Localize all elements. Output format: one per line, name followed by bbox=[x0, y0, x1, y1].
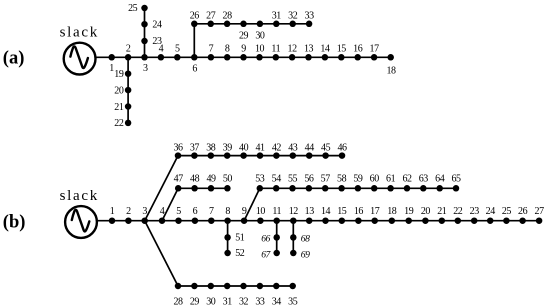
node 12 (a) bbox=[288, 43, 298, 60]
node 11 (b) bbox=[272, 206, 281, 224]
wire diagonal (b) bus3 down to bus28 bbox=[145, 221, 178, 286]
svg-text:64: 64 bbox=[435, 174, 445, 185]
svg-text:22: 22 bbox=[453, 206, 463, 217]
svg-text:12: 12 bbox=[289, 206, 299, 217]
svg-text:39: 39 bbox=[223, 142, 233, 153]
wire branch (a) bus3 up to bus 25 bbox=[144, 8, 146, 57]
svg-text:slack: slack bbox=[60, 25, 99, 41]
svg-text:21: 21 bbox=[114, 102, 124, 113]
node 8 (a) bbox=[224, 43, 231, 60]
node 27 (b) bbox=[535, 206, 545, 224]
node 63 (b) bbox=[419, 174, 429, 192]
svg-text:35: 35 bbox=[288, 296, 298, 306]
svg-text:12: 12 bbox=[288, 43, 298, 54]
node 59 (b) bbox=[353, 174, 363, 192]
node 40 (b) bbox=[239, 142, 249, 158]
svg-text:65: 65 bbox=[451, 174, 461, 185]
wire branch (b) bus12 down to bus69 bbox=[292, 221, 294, 253]
svg-text:28: 28 bbox=[223, 11, 233, 22]
node 7 (b) bbox=[208, 206, 215, 224]
node 16 (b) bbox=[354, 206, 364, 224]
node 32 (a) bbox=[288, 11, 298, 27]
node 49 (b) bbox=[206, 174, 216, 192]
svg-text:14: 14 bbox=[321, 206, 331, 217]
node 27 (a) bbox=[206, 11, 216, 27]
node 68 (b) bbox=[290, 234, 310, 245]
svg-text:30: 30 bbox=[206, 296, 216, 306]
node 16 (a) bbox=[353, 43, 363, 60]
node 50 (b) bbox=[223, 174, 233, 192]
svg-text:27: 27 bbox=[535, 206, 545, 217]
svg-text:5: 5 bbox=[175, 43, 180, 54]
svg-text:51: 51 bbox=[235, 233, 245, 244]
svg-text:26: 26 bbox=[518, 206, 528, 217]
wire diagonal (b) bus3 up to bus36 bbox=[145, 156, 178, 221]
svg-text:11: 11 bbox=[272, 206, 281, 217]
svg-text:25: 25 bbox=[502, 206, 512, 217]
svg-text:1: 1 bbox=[110, 206, 115, 217]
node 20 (a) bbox=[114, 85, 131, 96]
node 35 (b) bbox=[288, 283, 298, 306]
slack source generator (a) bbox=[64, 43, 96, 75]
svg-text:66: 66 bbox=[261, 233, 270, 244]
node 6 (a) bbox=[191, 54, 198, 74]
svg-text:16: 16 bbox=[353, 43, 363, 54]
node 26 (a) bbox=[190, 11, 200, 27]
node 15 (b) bbox=[337, 206, 347, 224]
wire branch (b) buses 28-35 bbox=[178, 285, 293, 287]
node 28 (b) bbox=[173, 283, 183, 306]
node 29 (b) bbox=[190, 283, 200, 306]
svg-text:54: 54 bbox=[272, 174, 282, 185]
node 6 (b) bbox=[192, 206, 199, 224]
node 13 (b) bbox=[305, 206, 315, 224]
svg-text:2: 2 bbox=[126, 206, 131, 217]
svg-text:63: 63 bbox=[419, 174, 429, 185]
svg-text:slack: slack bbox=[60, 188, 99, 204]
svg-text:34: 34 bbox=[272, 296, 282, 306]
wire branch (b) buses 53-65 bbox=[260, 187, 456, 189]
node 62 (b) bbox=[402, 174, 412, 192]
node 10 (b) bbox=[256, 206, 266, 224]
node 4 (a) bbox=[158, 43, 165, 60]
svg-text:61: 61 bbox=[386, 174, 396, 185]
svg-text:19: 19 bbox=[114, 69, 124, 80]
svg-text:2: 2 bbox=[126, 43, 131, 54]
svg-text:36: 36 bbox=[173, 142, 183, 153]
svg-text:10: 10 bbox=[256, 206, 266, 217]
svg-text:7: 7 bbox=[209, 43, 214, 54]
svg-text:40: 40 bbox=[239, 142, 249, 153]
wire main feeder (a) buses 1-18 bbox=[96, 56, 391, 58]
svg-text:49: 49 bbox=[206, 174, 216, 185]
svg-text:3: 3 bbox=[143, 63, 148, 74]
svg-text:62: 62 bbox=[402, 174, 412, 185]
svg-text:31: 31 bbox=[272, 11, 282, 22]
node 44 (b) bbox=[305, 142, 315, 158]
svg-text:53: 53 bbox=[255, 174, 265, 185]
node 25 (a) bbox=[128, 3, 148, 14]
node 26 (b) bbox=[518, 206, 528, 224]
svg-text:52: 52 bbox=[235, 248, 245, 259]
node 30 (a) bbox=[255, 21, 265, 42]
node 4 (b) bbox=[159, 206, 166, 224]
svg-text:32: 32 bbox=[288, 11, 298, 22]
svg-text:18: 18 bbox=[386, 65, 396, 76]
svg-text:28: 28 bbox=[173, 296, 183, 306]
svg-text:33: 33 bbox=[255, 296, 265, 306]
svg-text:17: 17 bbox=[370, 43, 380, 54]
svg-text:13: 13 bbox=[305, 206, 315, 217]
wire branch (b) bus11 down to bus67 bbox=[276, 221, 278, 253]
svg-text:32: 32 bbox=[239, 296, 249, 306]
node 30 (b) bbox=[206, 283, 216, 306]
svg-text:13: 13 bbox=[304, 43, 314, 54]
node 1 (a) bbox=[108, 54, 115, 74]
node 11 (a) bbox=[271, 43, 280, 60]
node 55 (b) bbox=[288, 174, 298, 192]
node 46 (b) bbox=[337, 142, 347, 158]
node 31 (a) bbox=[272, 11, 282, 27]
svg-text:31: 31 bbox=[223, 296, 233, 306]
svg-text:4: 4 bbox=[160, 206, 165, 217]
node 42 (b) bbox=[272, 142, 282, 158]
node 17 (a) bbox=[370, 43, 380, 60]
svg-text:21: 21 bbox=[437, 206, 447, 217]
wire branch (b) bus8 down to bus52 bbox=[227, 221, 229, 253]
node 2 (b) bbox=[125, 206, 132, 224]
svg-text:8: 8 bbox=[225, 43, 230, 54]
svg-text:29: 29 bbox=[190, 296, 200, 306]
svg-text:58: 58 bbox=[337, 174, 347, 185]
svg-text:20: 20 bbox=[421, 206, 431, 217]
node 28 (a) bbox=[223, 11, 233, 27]
svg-text:50: 50 bbox=[223, 174, 233, 185]
node 31 (b) bbox=[223, 283, 233, 306]
svg-text:38: 38 bbox=[206, 142, 216, 153]
slack source generator (b) bbox=[65, 206, 97, 238]
node 36 (b) bbox=[173, 142, 183, 158]
node 2 (a) bbox=[125, 43, 132, 60]
wire main feeder (b) buses 1-27 bbox=[97, 220, 539, 222]
svg-text:59: 59 bbox=[353, 174, 363, 185]
svg-text:16: 16 bbox=[354, 206, 364, 217]
svg-text:5: 5 bbox=[176, 206, 181, 217]
svg-text:27: 27 bbox=[206, 11, 216, 22]
wire diagonal (b) bus4 up to bus47 bbox=[162, 188, 178, 220]
node 14 (b) bbox=[321, 206, 331, 224]
svg-text:33: 33 bbox=[305, 11, 315, 22]
node 19 (b) bbox=[404, 206, 414, 224]
svg-text:43: 43 bbox=[288, 142, 298, 153]
wire branch (b) buses 47-50 bbox=[178, 187, 227, 189]
node 48 (b) bbox=[190, 174, 200, 192]
node 18 (b) bbox=[387, 206, 397, 224]
svg-text:67: 67 bbox=[261, 249, 271, 260]
svg-text:24: 24 bbox=[152, 19, 162, 30]
node 33 (b) bbox=[255, 283, 265, 306]
svg-text:60: 60 bbox=[370, 174, 380, 185]
wire branch (a) buses 26-33 bbox=[194, 23, 309, 25]
svg-text:9: 9 bbox=[241, 43, 246, 54]
node 65 (b) bbox=[451, 174, 461, 192]
node 5 (b) bbox=[175, 206, 182, 224]
node 7 (a) bbox=[208, 43, 215, 60]
svg-text:22: 22 bbox=[114, 118, 124, 129]
node 22 (a) bbox=[114, 118, 131, 129]
svg-text:23: 23 bbox=[152, 36, 162, 47]
node 13 (a) bbox=[304, 43, 314, 60]
svg-text:23: 23 bbox=[470, 206, 480, 217]
node 54 (b) bbox=[272, 174, 282, 192]
node 53 (b) bbox=[255, 174, 265, 192]
svg-text:57: 57 bbox=[321, 174, 331, 185]
node 23 (b) bbox=[470, 206, 480, 224]
svg-text:42: 42 bbox=[272, 142, 282, 153]
node 38 (b) bbox=[206, 142, 216, 158]
svg-text:55: 55 bbox=[288, 174, 298, 185]
node 69 (b) bbox=[290, 250, 310, 261]
node 47 (b) bbox=[174, 174, 184, 192]
node 22 (b) bbox=[453, 206, 463, 224]
svg-text:9: 9 bbox=[242, 206, 247, 217]
svg-text:(a): (a) bbox=[3, 48, 25, 68]
node 56 (b) bbox=[304, 174, 314, 192]
node 15 (a) bbox=[337, 43, 347, 60]
node 21 (a) bbox=[114, 102, 131, 113]
svg-text:25: 25 bbox=[128, 3, 138, 14]
svg-text:14: 14 bbox=[320, 43, 330, 54]
node 10 (a) bbox=[255, 43, 265, 60]
node 33 (a) bbox=[305, 11, 315, 27]
svg-text:48: 48 bbox=[190, 174, 200, 185]
node 18 (a) bbox=[386, 54, 396, 76]
node 8 (b) bbox=[224, 206, 231, 224]
node 39 (b) bbox=[223, 142, 233, 158]
svg-text:(b): (b) bbox=[3, 213, 26, 233]
node 66 (b) bbox=[261, 233, 280, 244]
svg-text:6: 6 bbox=[193, 206, 198, 217]
svg-text:6: 6 bbox=[192, 63, 197, 74]
node 20 (b) bbox=[421, 206, 431, 224]
node 9 (a) bbox=[240, 43, 247, 60]
svg-text:29: 29 bbox=[239, 30, 249, 41]
svg-text:26: 26 bbox=[190, 11, 200, 22]
wire diagonal (b) bus9 up to bus53 bbox=[244, 188, 260, 220]
node 37 (b) bbox=[190, 142, 200, 158]
svg-text:20: 20 bbox=[114, 85, 124, 96]
node 19 (a) bbox=[114, 69, 131, 80]
node 45 (b) bbox=[321, 142, 331, 158]
svg-text:15: 15 bbox=[337, 206, 347, 217]
node 3 (a) bbox=[141, 54, 148, 74]
svg-text:69: 69 bbox=[301, 250, 310, 261]
node 12 (b) bbox=[289, 206, 299, 224]
svg-text:56: 56 bbox=[304, 174, 314, 185]
svg-text:10: 10 bbox=[255, 43, 265, 54]
svg-text:7: 7 bbox=[209, 206, 214, 217]
node 1 (b) bbox=[109, 206, 116, 224]
svg-text:44: 44 bbox=[305, 142, 315, 153]
node 3 (b) bbox=[141, 206, 148, 224]
node 64 (b) bbox=[435, 174, 445, 192]
svg-text:19: 19 bbox=[404, 206, 414, 217]
node 23 (a) bbox=[141, 36, 162, 47]
node 9 (b) bbox=[241, 206, 248, 224]
node 29 (a) bbox=[239, 21, 249, 42]
wire branch (a) bus2 down to bus 22 bbox=[127, 57, 129, 123]
svg-text:47: 47 bbox=[174, 174, 184, 185]
node 67 (b) bbox=[261, 249, 280, 260]
svg-text:45: 45 bbox=[321, 142, 331, 153]
node 57 (b) bbox=[321, 174, 331, 192]
node 25 (b) bbox=[502, 206, 512, 224]
svg-text:30: 30 bbox=[255, 30, 265, 41]
svg-text:3: 3 bbox=[142, 206, 147, 217]
node 43 (b) bbox=[288, 142, 298, 158]
svg-text:15: 15 bbox=[337, 43, 347, 54]
node 21 (b) bbox=[437, 206, 447, 224]
svg-text:11: 11 bbox=[271, 43, 280, 54]
node 41 (b) bbox=[255, 142, 265, 158]
node 5 (a) bbox=[174, 43, 181, 60]
svg-text:46: 46 bbox=[337, 142, 347, 153]
node 61 (b) bbox=[386, 174, 396, 192]
wire branch (b) buses 36-46 bbox=[178, 155, 342, 157]
svg-text:18: 18 bbox=[387, 206, 397, 217]
node 17 (b) bbox=[370, 206, 380, 224]
node 58 (b) bbox=[337, 174, 347, 192]
node 52 (b) bbox=[224, 248, 244, 259]
svg-text:17: 17 bbox=[370, 206, 380, 217]
svg-text:68: 68 bbox=[301, 234, 310, 245]
node 32 (b) bbox=[239, 283, 249, 306]
node 24 (a) bbox=[141, 19, 162, 30]
node 34 (b) bbox=[272, 283, 282, 306]
node 51 (b) bbox=[224, 233, 244, 244]
node 24 (b) bbox=[486, 206, 496, 224]
svg-text:37: 37 bbox=[190, 142, 200, 153]
node 60 (b) bbox=[370, 174, 380, 192]
svg-text:8: 8 bbox=[225, 206, 230, 217]
node 14 (a) bbox=[320, 43, 330, 60]
wire branch (a) bus6 up to bus 26 bbox=[193, 24, 195, 58]
svg-text:24: 24 bbox=[486, 206, 496, 217]
svg-text:41: 41 bbox=[255, 142, 265, 153]
